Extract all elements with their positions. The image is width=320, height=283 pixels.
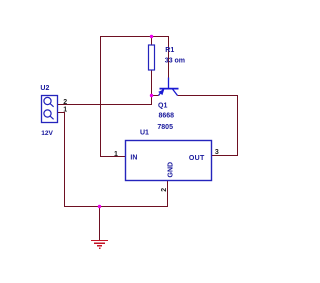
node junction ground: [98, 205, 101, 208]
svg-text:8668: 8668: [159, 113, 175, 120]
svg-text:1: 1: [114, 151, 118, 158]
svg-text:GND: GND: [167, 162, 174, 178]
wire left vertical from top bus to IN pin: [100, 36, 102, 157]
svg-text:Q1: Q1: [158, 103, 167, 110]
svg-text:3: 3: [215, 149, 219, 156]
wire top bus from node above IN to base drop: [100, 36, 169, 38]
wire right vertical collector to OUT: [237, 95, 239, 156]
svg-text:12V: 12V: [41, 130, 53, 137]
svg-text:7805: 7805: [157, 124, 173, 131]
wire R1 top lead: [151, 36, 153, 45]
svg-text:OUT: OUT: [189, 155, 205, 162]
transistor Q1: [158, 78, 178, 96]
node junction emitter / 12V: [150, 94, 153, 97]
wire R1 bottom lead down to U2 pin2 run: [151, 70, 153, 105]
wire ground bus: [64, 206, 168, 208]
wire base drop from top bus to Q1 base: [168, 36, 170, 78]
resistor R1: [149, 45, 155, 70]
svg-text:U2: U2: [40, 85, 49, 92]
svg-text:R1: R1: [165, 47, 174, 54]
wire collector run: [178, 95, 239, 97]
wire OUT pin stub: [212, 155, 239, 157]
wire GND pin drop: [167, 181, 169, 208]
ground: [91, 241, 108, 249]
wire U2 pin1 stub: [58, 112, 66, 114]
svg-text:1: 1: [63, 107, 67, 114]
connector U2: [42, 96, 58, 123]
voltage regulator U1: [126, 141, 212, 181]
wire left drop from U2 pin1 to ground bus: [64, 112, 66, 207]
node junction R1 top: [150, 35, 153, 38]
svg-text:33 om: 33 om: [165, 57, 185, 64]
svg-text:2: 2: [161, 188, 168, 192]
wire U2 pin2 run: [58, 104, 153, 106]
wire ground stem: [99, 206, 101, 241]
wire IN pin stub: [100, 156, 126, 158]
wire emitter stub: [151, 95, 159, 97]
svg-text:U1: U1: [140, 129, 149, 136]
svg-text:IN: IN: [130, 154, 137, 161]
svg-text:2: 2: [63, 99, 67, 106]
